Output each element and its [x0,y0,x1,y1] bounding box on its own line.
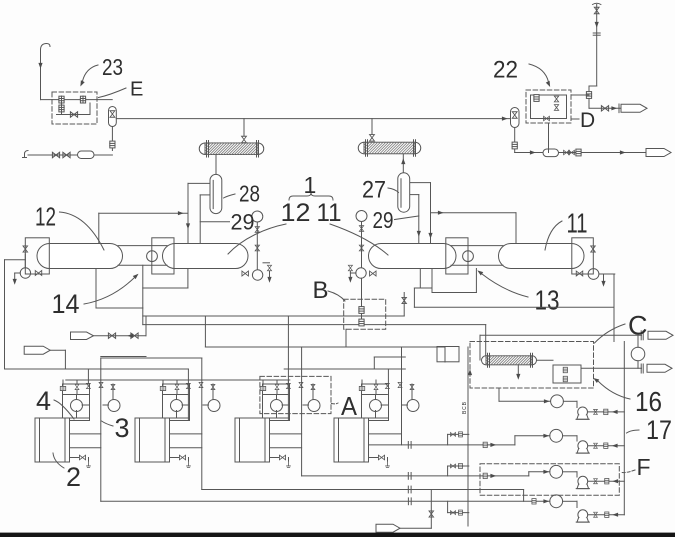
svg-text:22: 22 [493,57,518,84]
svg-text:16: 16 [635,386,662,417]
svg-text:1: 1 [304,172,317,198]
svg-text:B: B [313,277,329,304]
svg-text:23: 23 [102,54,123,80]
svg-text:28: 28 [239,181,260,207]
svg-text:11: 11 [567,208,588,239]
svg-text:4: 4 [36,386,51,416]
svg-text:BCB: BCB [462,401,468,414]
svg-text:2: 2 [66,462,81,492]
svg-text:27: 27 [362,177,386,204]
svg-text:13: 13 [535,285,560,316]
svg-text:12: 12 [35,201,56,231]
svg-text:14: 14 [52,289,80,319]
svg-text:D: D [580,109,595,132]
svg-text:29: 29 [231,210,255,235]
svg-text:C: C [628,311,648,341]
svg-text:F: F [637,454,651,480]
svg-text:17: 17 [646,415,672,445]
svg-text:A: A [341,391,358,421]
svg-text:3: 3 [115,413,130,443]
svg-text:29: 29 [373,207,394,233]
svg-text:12: 12 [281,199,311,227]
svg-text:E: E [130,79,143,101]
svg-text:11: 11 [317,199,342,227]
